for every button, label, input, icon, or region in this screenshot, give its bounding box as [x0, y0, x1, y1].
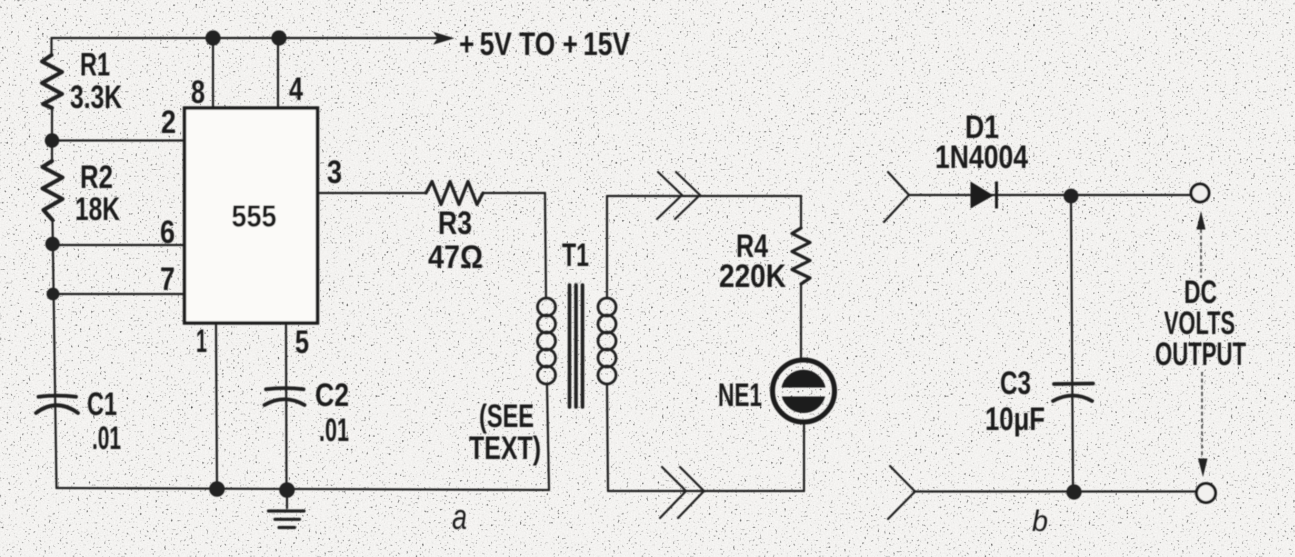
svg-text:+ 5V TO + 15V: + 5V TO + 15V [459, 26, 631, 62]
svg-text:7: 7 [160, 261, 175, 297]
junction dot pin5 bottom [279, 482, 295, 498]
input chevron bottom (section b) [888, 466, 915, 519]
junction dot pin8 top rail [205, 30, 220, 45]
terminal circle bottom output [1197, 484, 1216, 503]
terminal circle top output [1191, 184, 1209, 202]
resistor R3 [426, 182, 483, 205]
wire: C3 branch [1071, 196, 1073, 491]
capacitor C2 [265, 388, 305, 405]
svg-text:C2: C2 [315, 377, 349, 413]
resistor R1 [42, 55, 62, 108]
svg-text:b: b [1032, 505, 1048, 538]
wire: pin 3 output [317, 192, 545, 194]
IC U1 555 box [185, 108, 318, 323]
svg-text:220K: 220K [719, 258, 786, 294]
section b [884, 172, 1196, 519]
capacitor C3 plates [1053, 384, 1093, 402]
svg-text:(SEE: (SEE [479, 398, 534, 434]
diode D1 [971, 182, 994, 209]
wire: pin 2 to left rail [52, 139, 184, 141]
svg-text:4: 4 [289, 71, 303, 107]
wire: top supply rail [52, 37, 451, 39]
wire: secondary top lead [607, 196, 801, 298]
input chevron top (section b) [884, 172, 909, 222]
wire: secondary bottom lead [607, 384, 804, 491]
junction dot pin2/R1 [45, 133, 59, 147]
chevron marks on secondary top wire [657, 172, 700, 219]
annotation arrow up (DC volts) [1197, 211, 1206, 278]
lamp NE1 [773, 360, 835, 422]
svg-text:C3: C3 [1000, 365, 1031, 401]
svg-text:TEXT): TEXT) [469, 430, 541, 466]
arrowhead +5V supply [433, 32, 455, 45]
svg-text:1N4004: 1N4004 [935, 139, 1028, 175]
svg-text:5: 5 [295, 324, 309, 360]
svg-text:T1: T1 [562, 237, 589, 273]
wire: pin 4 [277, 38, 279, 107]
junction dot D1 output [1064, 189, 1079, 204]
svg-text:2: 2 [161, 104, 176, 140]
transformer T1 secondary coil [598, 298, 616, 316]
svg-text:555: 555 [232, 199, 277, 234]
wire: pin 7 to left rail [54, 293, 185, 295]
wire: NE loop right side top [800, 196, 802, 359]
resistor R2 [43, 161, 63, 220]
svg-text:8: 8 [191, 74, 205, 110]
wire: top rail section b [909, 194, 1191, 196]
ground [269, 511, 305, 528]
svg-text:R2: R2 [80, 159, 113, 195]
junction dot pin4 top rail [271, 30, 286, 45]
svg-text:C1: C1 [87, 386, 117, 422]
transformer T1 primary coil [538, 298, 556, 316]
wire: R3 to transformer primary [545, 193, 549, 490]
svg-text:.01: .01 [319, 412, 349, 448]
wire: pin 8 [212, 38, 214, 107]
wire: bottom rail section b [915, 490, 1196, 492]
svg-text:.01: .01 [92, 420, 121, 456]
wire: left rail [52, 38, 57, 488]
wire: pin 6 to left rail [53, 244, 184, 246]
wire: NE loop right side bottom [803, 423, 805, 491]
svg-text:OUTPUT: OUTPUT [1155, 336, 1246, 372]
svg-text:3: 3 [327, 154, 342, 190]
svg-text:NE1: NE1 [718, 377, 762, 413]
svg-text:18K: 18K [75, 191, 120, 227]
annotation arrow down (DC volts) [1198, 372, 1208, 477]
resistor R4 [792, 228, 810, 284]
svg-text:6: 6 [160, 214, 175, 250]
wire: pin 5 / C2 branch [285, 325, 288, 490]
svg-text:a: a [452, 496, 467, 537]
junction dot C3 bottom [1066, 484, 1081, 499]
junction dot pin6/R2 [45, 237, 59, 251]
wire: pin 1 down [216, 325, 217, 489]
svg-text:R1: R1 [80, 47, 110, 83]
svg-text:10μF: 10μF [985, 401, 1045, 437]
svg-text:1: 1 [196, 323, 207, 359]
wire: bottom rail of section a [57, 488, 550, 490]
svg-text:47Ω: 47Ω [428, 239, 483, 275]
svg-text:3.3K: 3.3K [70, 79, 122, 115]
junction dot pin1 bottom [209, 481, 225, 497]
svg-text:R3: R3 [438, 205, 472, 241]
capacitor C1 [36, 396, 78, 413]
wire: ground stub [286, 490, 288, 508]
transformer T1 core [570, 285, 583, 407]
chevron marks on secondary bottom wire [660, 467, 704, 518]
junction dot pin7 [47, 288, 60, 301]
